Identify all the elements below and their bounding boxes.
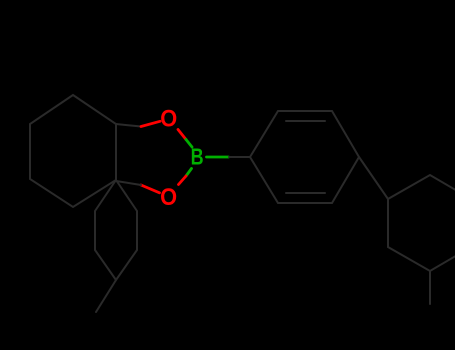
wire O2-C5 red half	[141, 185, 160, 193]
svg-text:B: B	[191, 143, 204, 169]
wire B-O2 green half	[186, 169, 192, 177]
wire O1-B red half	[178, 130, 186, 140]
methyl stub below narrow ring	[96, 280, 116, 312]
svg-text:O: O	[160, 184, 177, 211]
wire B-phenyl green half	[207, 156, 229, 159]
wire B-phenyl dark half	[229, 156, 250, 158]
wire O1-B green half	[186, 140, 192, 148]
double bond inner line bottom	[286, 192, 325, 194]
wire B-O2 red half	[179, 176, 187, 185]
wire C4-O1 dark half	[116, 124, 141, 127]
cyclohexane ring (left, fused)	[30, 95, 116, 207]
wire C4-O1 red half	[141, 121, 160, 126]
methyl stub below ring 2	[429, 271, 431, 304]
benzene ring (right of B)	[250, 111, 359, 203]
double bond inner line top	[286, 120, 325, 122]
svg-text:O: O	[160, 105, 177, 132]
cyclohexane ring 2 (bottom right, clipped)	[388, 175, 455, 271]
wire phenyl-ring2	[359, 157, 388, 199]
narrow cyclohexylene ring (below C5)	[95, 180, 137, 280]
wire O2-C5 dark half	[116, 181, 141, 185]
